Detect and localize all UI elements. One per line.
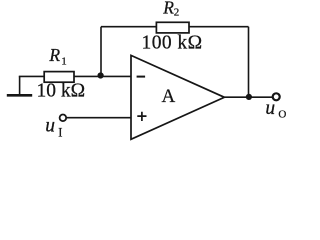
svg-text:R: R (48, 45, 60, 65)
value label 10 kΩ (37, 80, 86, 101)
svg-text:I: I (58, 125, 62, 139)
svg-text:100 kΩ: 100 kΩ (142, 32, 203, 53)
svg-text:1: 1 (61, 55, 66, 67)
value label 100 kΩ (142, 32, 203, 53)
label R1 (48, 45, 66, 67)
node: output junction (246, 94, 252, 100)
node: inverting summing junction (98, 72, 104, 78)
resistor R2 (156, 22, 189, 33)
op-amp minus input sign (137, 76, 146, 78)
svg-text:O: O (278, 108, 286, 120)
wire: non-inverting input wire from u_I terminal (66, 117, 131, 119)
svg-text:R: R (162, 0, 174, 18)
op-amp gain label A (162, 86, 176, 107)
wire: feedback right vertical drop to output node (248, 27, 250, 98)
label R2 (162, 0, 179, 19)
wire: top feedback rail (101, 26, 249, 28)
ground (7, 76, 32, 95)
svg-text:A: A (162, 86, 176, 107)
svg-text:u: u (265, 98, 275, 119)
wire: feedback left vertical drop to inverting node (100, 27, 102, 77)
label u_I (45, 116, 62, 140)
terminal u_I (60, 115, 67, 122)
op-amp A: triangle (131, 55, 224, 139)
wire: input wire from ground through R1 to inverting input (19, 75, 131, 77)
svg-text:2: 2 (174, 7, 180, 19)
svg-text:10 kΩ: 10 kΩ (37, 80, 86, 101)
label u_O (265, 98, 286, 120)
wire: output wire (224, 96, 272, 98)
resistor R1 (44, 72, 74, 83)
terminal u_O (273, 93, 280, 100)
svg-text:u: u (45, 116, 55, 137)
op-amp plus input sign (137, 112, 146, 121)
